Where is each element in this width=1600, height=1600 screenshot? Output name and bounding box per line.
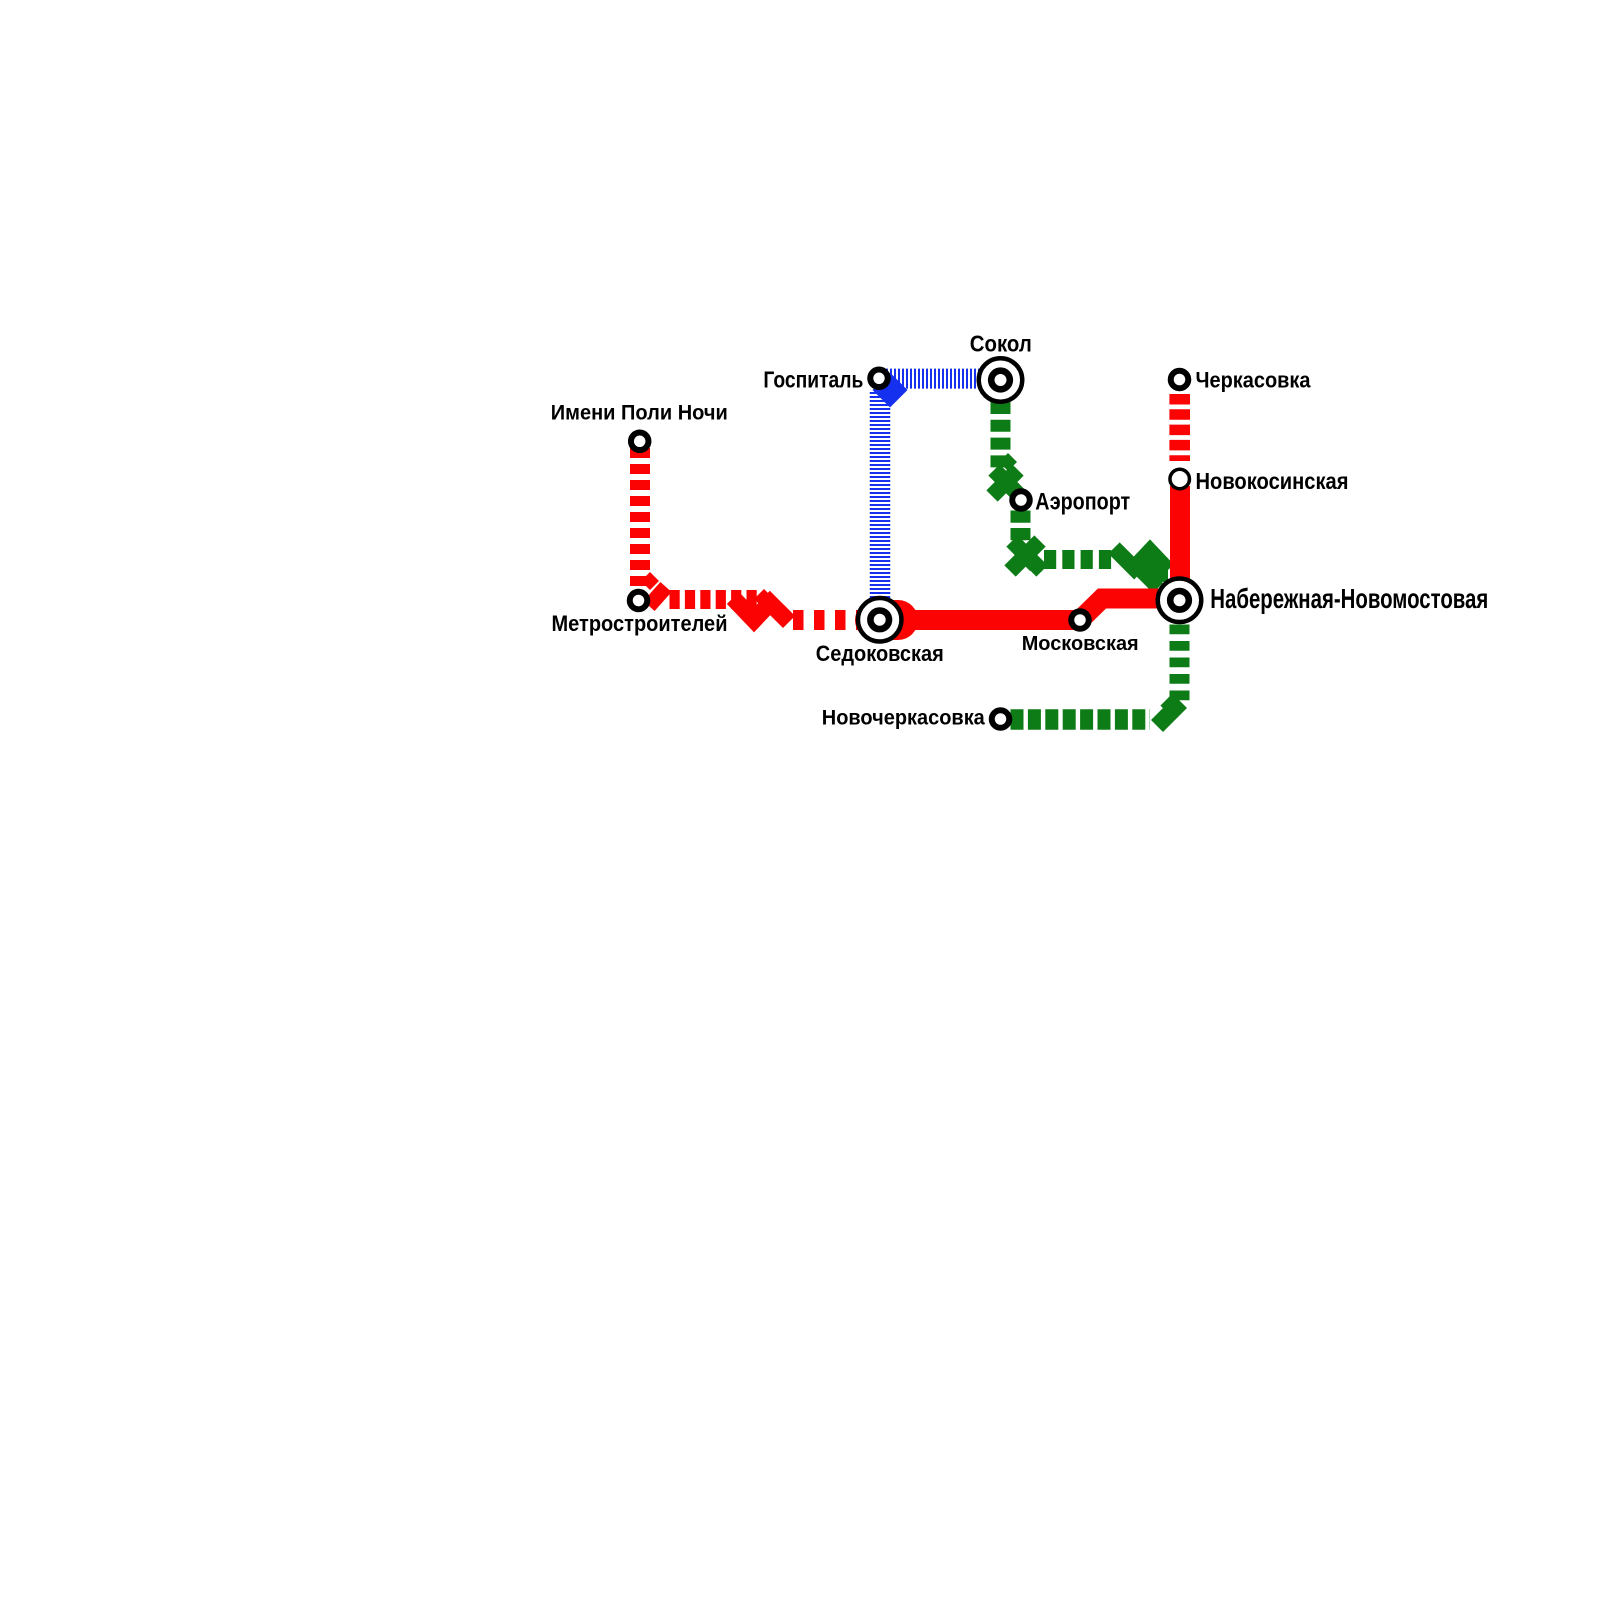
wire: green corner scribble near Новочеркасовка xyxy=(1157,701,1181,726)
svg-text:Новокосинская: Новокосинская xyxy=(1196,468,1349,494)
wire: red corner scribble at Метростроителей xyxy=(641,572,666,606)
wire: green dashed horizontal Аэропорт-Набережная xyxy=(1044,550,1112,569)
wire: blue striped vertical Госпиталь-Седоковская xyxy=(870,392,891,600)
wire: green scribble before Набережная xyxy=(1114,548,1168,588)
wire: green corner scribble below Аэропорт xyxy=(1010,541,1042,571)
wire: red dashed vertical Имени Поли Ночи-Метростроителей xyxy=(630,448,650,589)
wire: green dashed horizontal Новочеркасовка xyxy=(1011,709,1151,730)
station Имени Поли Ночи xyxy=(631,433,649,451)
station Черкасовка xyxy=(1171,371,1189,389)
station Московская xyxy=(1071,611,1089,629)
wire: red solid Седоковская-Московская-Набережная xyxy=(898,599,1180,621)
svg-text:Новочеркасовка: Новочеркасовка xyxy=(822,706,986,730)
svg-text:Набережная-Новомостовая: Набережная-Новомостовая xyxy=(1210,583,1488,614)
wire: green scribble above Аэропорт xyxy=(992,453,1024,500)
wire: blue corner diamond at Госпиталь xyxy=(873,373,908,408)
wire: red dashed horizontal upper row xyxy=(670,590,758,609)
svg-text:Сокол: Сокол xyxy=(970,331,1032,357)
wire: red dashed horizontal lower row xyxy=(793,610,858,630)
wire: red solid blob at Седоковская xyxy=(875,600,898,640)
svg-text:Имени Поли Ночи: Имени Поли Ночи xyxy=(551,402,728,425)
station Набережная-Новомостовая (transfer) xyxy=(1158,579,1202,623)
wire: green dashed vertical below Аэропорт xyxy=(1011,511,1031,542)
station Седоковская (transfer) xyxy=(858,598,902,642)
station Новочеркасовка xyxy=(992,710,1010,728)
wire: red dashed vertical Черкасовка-Новокосинская xyxy=(1169,394,1190,461)
station Аэропорт xyxy=(1012,491,1030,509)
station Новокосинская xyxy=(1170,469,1190,489)
svg-text:Госпиталь: Госпиталь xyxy=(763,367,863,393)
svg-text:Метростроителей: Метростроителей xyxy=(552,611,728,636)
svg-text:Черкасовка: Черкасовка xyxy=(1196,368,1311,393)
station Метростроителей xyxy=(630,592,648,610)
station Госпиталь xyxy=(870,370,888,388)
wire: blue striped horizontal Госпиталь-Сокол xyxy=(886,369,980,389)
wire: red scribble cluster mid horizontal xyxy=(733,589,794,625)
wire: red solid vertical Набережная-Новокосинская xyxy=(1170,486,1190,610)
svg-text:Аэропорт: Аэропорт xyxy=(1035,489,1130,516)
svg-text:Седоковская: Седоковская xyxy=(816,641,944,666)
station Сокол (transfer) xyxy=(979,358,1023,402)
wire: green dashed vertical below Набережная xyxy=(1170,625,1190,703)
svg-text:Московская: Московская xyxy=(1022,632,1139,655)
wire: green dashed vertical Сокол-Аэропорт xyxy=(991,402,1011,468)
